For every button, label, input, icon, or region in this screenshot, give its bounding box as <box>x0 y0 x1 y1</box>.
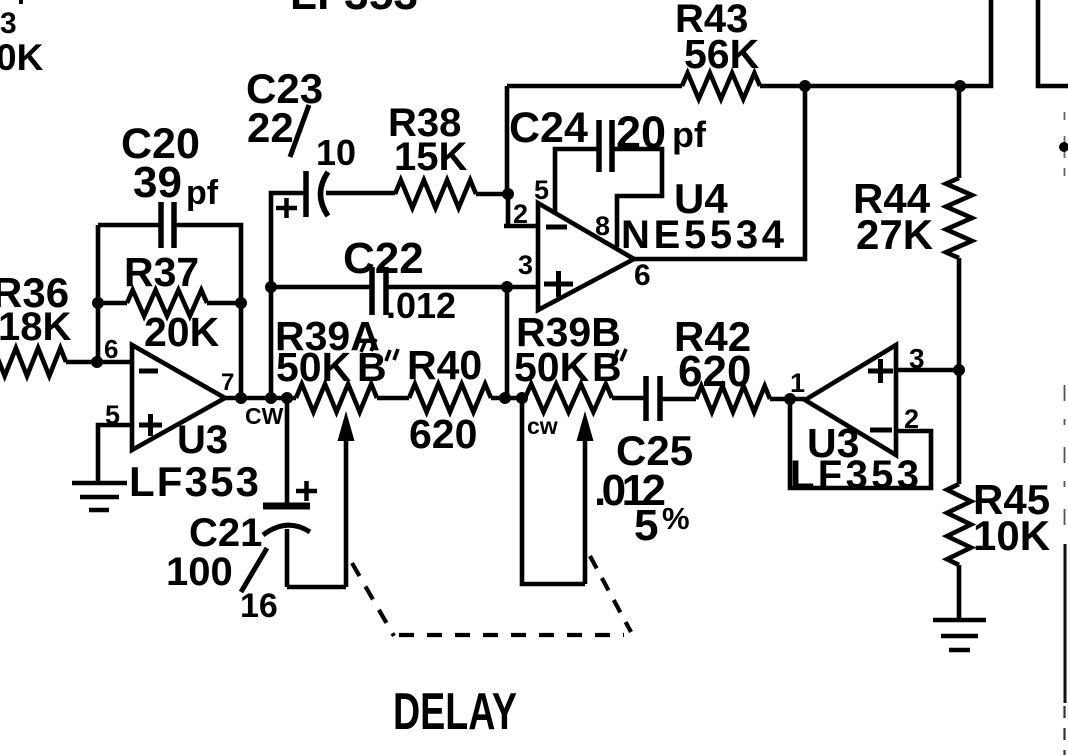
cut label top-center partial LF353 <box>290 0 418 19</box>
capacitor C23 plate right curved <box>321 172 329 216</box>
plus sign C23 <box>276 198 297 218</box>
potentiometer R39B <box>525 384 612 412</box>
wire x=507 down to R40/R39B node <box>505 287 510 398</box>
svg-text:0K: 0K <box>0 37 44 78</box>
svg-text:3: 3 <box>518 250 533 280</box>
wire C22 left lead <box>271 285 372 290</box>
minus sign U3 left <box>139 369 158 374</box>
resistor R45 <box>947 484 971 565</box>
svg-text:3: 3 <box>0 7 17 40</box>
op-amp U3 right triangle <box>805 345 896 455</box>
node R44 top junction <box>954 80 966 92</box>
wire R42 right lead <box>770 397 805 402</box>
wire pin2 jog into U4 <box>504 194 539 226</box>
plus sign C21 <box>296 481 317 501</box>
svg-text:LF353: LF353 <box>129 458 259 505</box>
svg-text:39: 39 <box>133 158 182 207</box>
wire right-edge broken vertical <box>1064 112 1066 180</box>
wire U3 output bus y=398 <box>225 396 646 401</box>
svg-text:pf: pf <box>672 114 707 155</box>
wire C23 left lead + corner down x=271 <box>271 193 306 399</box>
node R37 left <box>92 297 104 309</box>
svg-text:B: B <box>357 344 387 390</box>
node pin6 junction <box>91 356 103 368</box>
node R40/R39B left <box>499 392 511 404</box>
svg-text:50K: 50K <box>514 344 590 390</box>
svg-text:C22: C22 <box>343 234 424 283</box>
wire x=507 down from bus to U4 pin2 node <box>505 86 510 194</box>
node right-edge dot <box>1059 142 1068 152</box>
resistor R37 <box>127 290 207 316</box>
minus sign U4 <box>546 225 567 230</box>
dashed gang line left diagonal <box>352 563 394 636</box>
dashed gang line horizontal <box>399 633 624 637</box>
op-amp U4 triangle <box>538 203 634 310</box>
node output/bus junction <box>799 80 811 92</box>
wire C21 top lead <box>285 398 290 506</box>
svg-text:U3: U3 <box>177 418 228 462</box>
wire R39B end box <box>522 398 585 584</box>
svg-text:.012: .012 <box>386 285 456 326</box>
wire top feedback bus y=86 <box>507 84 993 89</box>
resistor R36 <box>0 348 66 376</box>
wire C21 bottom lead to wiper <box>287 529 346 587</box>
svg-text:LF353: LF353 <box>290 0 418 19</box>
capacitor C21 plates <box>263 506 310 535</box>
wire top-right corner stub <box>1038 0 1068 86</box>
svg-text:5: 5 <box>634 501 658 550</box>
svg-text:22: 22 <box>247 104 294 151</box>
plus sign U3 right <box>868 359 893 383</box>
label 22/10 <box>247 104 356 173</box>
capacitor C25 plates <box>646 376 660 421</box>
wire C24 right lead + pin8 stair <box>612 149 662 247</box>
node R37 right <box>235 297 247 309</box>
wire C22 right lead to U4 pin3 node <box>386 285 539 290</box>
wire R44 top lead <box>957 86 962 178</box>
svg-text:50K: 50K <box>276 344 352 390</box>
svg-text:6: 6 <box>634 259 651 292</box>
svg-text:C24: C24 <box>509 104 588 152</box>
wire U4 output to feedback bus <box>634 86 805 259</box>
node C23/C22 drop <box>265 392 277 404</box>
svg-text:%: % <box>662 501 690 536</box>
ground under R45 <box>933 620 986 650</box>
plus sign U4 <box>544 271 573 297</box>
node C21 tap <box>281 392 293 404</box>
capacitor C23 plate left (+) <box>303 171 309 217</box>
wire pin2 feedback loop <box>790 399 931 488</box>
svg-text:1: 1 <box>790 368 805 398</box>
wiper arrow R39B <box>583 438 588 584</box>
svg-text:6: 6 <box>104 334 118 364</box>
capacitor C24 plates <box>599 120 612 172</box>
wire R45 bottom lead <box>957 565 962 620</box>
wire C20 top left lead <box>98 223 159 228</box>
label 50K B'' <box>276 344 398 390</box>
minus sign U3 right <box>870 428 892 433</box>
wire R37 right lead <box>207 301 241 306</box>
plus sign U3 left <box>139 414 162 436</box>
wire C25 to R42 <box>660 397 696 402</box>
svg-text:R37: R37 <box>124 249 199 295</box>
resistor R42 <box>696 386 770 412</box>
wire R44 bottom to divider node <box>957 258 962 370</box>
svg-text:pf: pf <box>186 174 219 212</box>
label R39A' <box>275 313 380 359</box>
resistor R40 <box>409 384 491 412</box>
svg-text:620: 620 <box>409 411 477 457</box>
node U3 right pin1 <box>784 393 796 405</box>
wire vertical to top edge x=991 <box>989 0 994 88</box>
node C22 left <box>265 281 277 293</box>
potentiometer R39A <box>296 384 377 412</box>
dashed gang line right diagonal <box>590 556 631 632</box>
wire C23 right lead to R38 <box>326 193 508 194</box>
svg-text:18K: 18K <box>0 305 71 349</box>
svg-text:27K: 27K <box>856 211 933 258</box>
wire C20 right lead + vertical down <box>174 225 241 399</box>
label 5% <box>634 501 690 550</box>
svg-text:C21: C21 <box>189 511 262 555</box>
wire pin3 to divider node <box>896 368 959 373</box>
wiper arrow R39A <box>344 438 349 587</box>
wire C24 left lead + pin5 drop <box>555 149 599 213</box>
label 100/16 <box>166 548 278 625</box>
svg-text:2: 2 <box>513 199 528 229</box>
capacitor C22 plates <box>372 267 386 315</box>
wire x=98 up to C20 <box>96 225 101 362</box>
svg-text:DELAY: DELAY <box>393 683 517 741</box>
svg-text:CW: CW <box>245 403 284 429</box>
svg-text:cw: cw <box>527 413 558 439</box>
svg-text:16: 16 <box>240 587 278 625</box>
resistor R44 <box>946 178 972 258</box>
label 39pf <box>133 158 219 212</box>
capacitor C20 plates <box>161 202 174 248</box>
node C20/R37 drop <box>235 392 247 404</box>
wire divider node down to R45 <box>957 370 962 484</box>
wire R36 to pin6 <box>66 360 132 365</box>
cut label top-left "0K" <box>0 37 44 78</box>
svg-text:620: 620 <box>678 347 751 396</box>
wire R37 left lead <box>98 301 127 306</box>
node R38/U4 pin2 junction <box>502 188 514 200</box>
svg-text:15K: 15K <box>394 135 467 179</box>
op-amp U3 left triangle <box>132 345 225 450</box>
svg-text:R40: R40 <box>407 342 482 388</box>
label 20pf <box>616 107 707 158</box>
resistor R43 <box>682 73 760 99</box>
node R39B left end <box>516 392 528 404</box>
ground under U3 left <box>72 483 127 510</box>
svg-text:56K: 56K <box>684 31 760 77</box>
label 50KB'' <box>514 344 626 390</box>
svg-text:100: 100 <box>166 550 233 594</box>
node U4 pin3 junction <box>501 281 513 293</box>
svg-text:20K: 20K <box>144 309 220 355</box>
svg-text:LF353: LF353 <box>790 453 919 497</box>
wire pin5 stub + ground drop <box>98 425 132 483</box>
svg-text:10: 10 <box>316 132 356 173</box>
cut label top-left "3" <box>0 0 23 40</box>
resistor R38 <box>395 180 476 208</box>
node divider junction <box>953 364 965 376</box>
svg-text:10K: 10K <box>973 512 1050 559</box>
svg-text:7: 7 <box>221 369 234 396</box>
